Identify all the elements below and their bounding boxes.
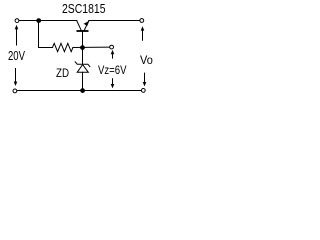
- wire base lead (node up to transistor base bar): [82, 32, 84, 48]
- 20V annotation up arrow: [16, 28, 18, 46]
- transistor Q1 emitter lead: [84, 21, 89, 31]
- output terminal up arrow: [142, 29, 144, 41]
- svg-text:20V: 20V: [8, 49, 25, 63]
- zener diode ZD cathode lead (node down to bar): [82, 48, 84, 65]
- resistor R1 zigzag: [53, 43, 73, 51]
- svg-text:Vo: Vo: [140, 53, 153, 67]
- transistor Q1 collector lead: [77, 21, 82, 31]
- Vo annotation down arrow: [144, 73, 146, 84]
- wire resistor to base node and on to test point: [73, 46, 110, 48]
- wire emitter to output terminal: [89, 20, 140, 22]
- input terminal top-left: [15, 19, 19, 23]
- junction dot at base node: [80, 45, 85, 50]
- junction dot at bottom rail: [80, 88, 85, 93]
- transistor Q1 emitter arrowhead (NPN): [84, 21, 90, 26]
- Vz annotation down arrow: [112, 78, 114, 85]
- wire branch down from top junction to resistor row: [39, 21, 53, 48]
- 20V annotation down arrow: [15, 68, 17, 83]
- junction dot at top rail: [36, 18, 41, 23]
- zener diode ZD anode triangle: [77, 65, 88, 73]
- transistor Q1 2SC1815 base bar: [77, 30, 87, 32]
- Vz annotation up arrow: [112, 53, 114, 59]
- output terminal top-right: [140, 19, 144, 23]
- svg-text:ZD: ZD: [56, 66, 69, 80]
- wire top rail (input to collector): [19, 20, 76, 22]
- test point terminal at zener cathode node: [110, 45, 114, 49]
- svg-text:Vz=6V: Vz=6V: [98, 63, 127, 77]
- input terminal bottom-left: [13, 89, 17, 93]
- wire bottom rail: [17, 90, 141, 92]
- output terminal bottom-right: [141, 89, 145, 93]
- svg-text:2SC1815: 2SC1815: [62, 1, 106, 16]
- zener diode ZD cathode bar with bent ends: [75, 62, 90, 67]
- zener diode ZD anode lead down to bottom rail: [82, 72, 84, 90]
